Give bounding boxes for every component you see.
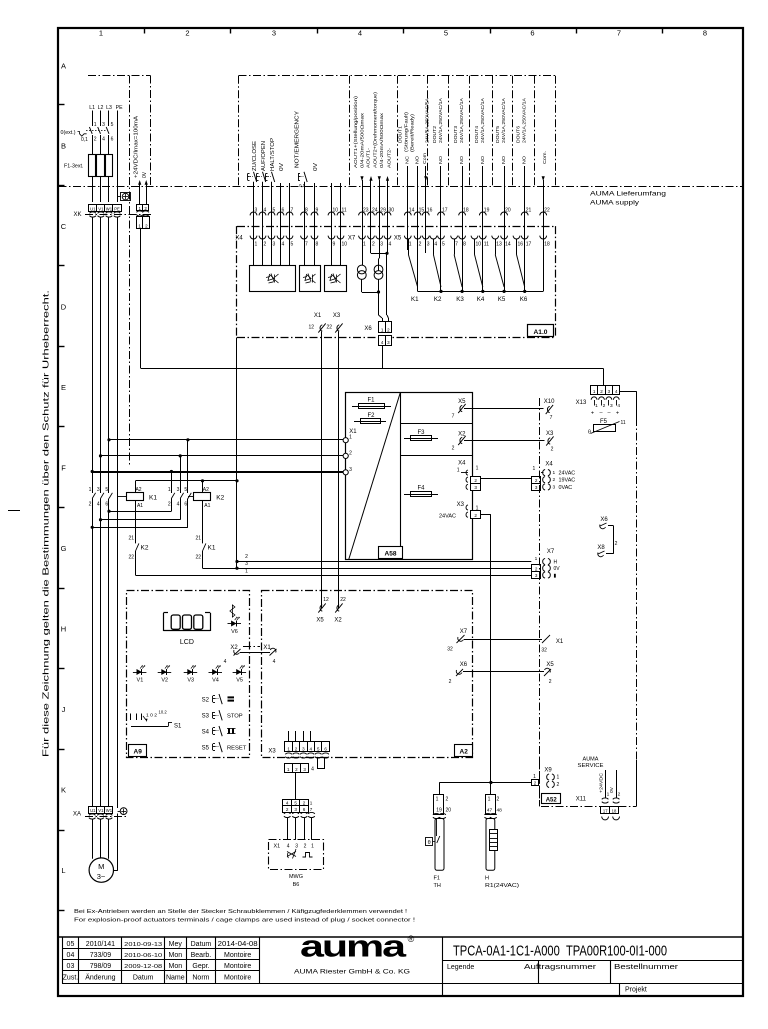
svg-text:A1: A1 xyxy=(204,503,210,509)
svg-text:V6: V6 xyxy=(231,629,238,635)
svg-text:3: 3 xyxy=(349,467,352,473)
svg-text:1: 1 xyxy=(607,792,610,798)
svg-text:▮: ▮ xyxy=(554,573,557,579)
svg-text:S4: S4 xyxy=(202,730,210,736)
svg-text:STOP: STOP xyxy=(227,714,243,720)
svg-text:24V/1A,250VAC/1A: 24V/1A,250VAC/1A xyxy=(522,97,528,143)
svg-text:K2: K2 xyxy=(434,296,442,303)
svg-text:4: 4 xyxy=(311,767,314,773)
svg-text:5: 5 xyxy=(184,487,187,493)
svg-text:H: H xyxy=(554,559,558,565)
svg-text:4: 4 xyxy=(434,241,437,247)
svg-text:X5: X5 xyxy=(394,235,402,241)
svg-text:RESET: RESET xyxy=(227,746,247,752)
svg-text:2: 2 xyxy=(372,241,375,247)
svg-text:3: 3 xyxy=(272,29,276,38)
svg-text:6: 6 xyxy=(303,807,306,812)
svg-text:4: 4 xyxy=(224,659,227,665)
svg-text:03: 03 xyxy=(67,963,75,970)
svg-text:X11: X11 xyxy=(576,797,587,803)
svg-text:18: 18 xyxy=(544,241,550,247)
svg-text:X13: X13 xyxy=(576,400,587,406)
svg-text:19: 19 xyxy=(436,808,442,814)
svg-text:U1: U1 xyxy=(90,206,96,211)
svg-text:PE: PE xyxy=(116,105,123,111)
svg-text:X1: X1 xyxy=(263,645,271,651)
svg-text:0/4-20mA/500Ωmax: 0/4-20mA/500Ωmax xyxy=(360,112,366,168)
svg-text:18: 18 xyxy=(612,809,617,814)
svg-text:2010-09-13: 2010-09-13 xyxy=(124,942,162,948)
svg-text:3: 3 xyxy=(102,122,105,128)
svg-text:+: + xyxy=(591,411,594,417)
svg-text:14: 14 xyxy=(505,241,511,247)
svg-text:+24VDC: +24VDC xyxy=(599,772,605,793)
svg-text:17: 17 xyxy=(603,809,608,814)
svg-text:0V: 0V xyxy=(313,162,319,171)
svg-text:(Störung/Fault): (Störung/Fault) xyxy=(404,112,410,152)
svg-text:AOUT2-: AOUT2- xyxy=(387,148,393,168)
svg-text:798/09: 798/09 xyxy=(90,963,112,970)
svg-text:X3: X3 xyxy=(268,749,276,755)
svg-text:5: 5 xyxy=(111,122,114,128)
svg-text:7: 7 xyxy=(455,241,458,247)
svg-text:13: 13 xyxy=(496,241,502,247)
svg-text:TPCA-0A1-1C1-A000 TPA00R100-0: TPCA-0A1-1C1-A000 TPA00R100-0I1-000 xyxy=(453,943,667,960)
svg-text:1: 1 xyxy=(255,241,258,247)
svg-text:04: 04 xyxy=(67,952,75,959)
svg-text:1: 1 xyxy=(533,466,536,472)
svg-text:Bearb.: Bearb. xyxy=(191,952,212,959)
svg-text:6: 6 xyxy=(105,502,108,508)
svg-text:X1: X1 xyxy=(274,844,281,850)
svg-text:AUMA: AUMA xyxy=(583,757,599,763)
svg-text:2010-06-10: 2010-06-10 xyxy=(124,953,162,959)
svg-text:4: 4 xyxy=(358,29,362,38)
svg-text:NO: NO xyxy=(415,156,421,164)
svg-text:3: 3 xyxy=(535,573,538,578)
svg-text:7: 7 xyxy=(617,29,621,38)
svg-text:1: 1 xyxy=(553,470,556,476)
svg-text:X3: X3 xyxy=(333,313,341,319)
svg-text:2: 2 xyxy=(168,502,171,508)
svg-text:7: 7 xyxy=(310,807,313,812)
svg-text:AOUT1-: AOUT1- xyxy=(366,148,372,168)
svg-text:NO: NO xyxy=(438,156,444,164)
svg-text:5: 5 xyxy=(105,487,108,493)
svg-text:2: 2 xyxy=(557,782,560,788)
svg-text:10.2: 10.2 xyxy=(159,710,168,715)
svg-text:3: 3 xyxy=(273,241,276,247)
svg-text:0/4-20mA/500Ωmax: 0/4-20mA/500Ωmax xyxy=(379,112,385,168)
svg-text:AUMA Riester GmbH & Co. KG: AUMA Riester GmbH & Co. KG xyxy=(294,969,410,976)
svg-text:19VAC: 19VAC xyxy=(559,478,576,484)
svg-text:X3: X3 xyxy=(457,502,465,508)
svg-text:1: 1 xyxy=(557,775,560,781)
svg-text:22: 22 xyxy=(195,555,201,561)
svg-text:3: 3 xyxy=(294,807,297,812)
svg-text:3: 3 xyxy=(295,844,298,850)
svg-text:24V/1A,250VAC/1A: 24V/1A,250VAC/1A xyxy=(501,97,507,143)
svg-text:17: 17 xyxy=(526,241,532,247)
svg-text:S1: S1 xyxy=(174,724,182,730)
svg-text:Mon: Mon xyxy=(168,952,182,959)
svg-text:K1: K1 xyxy=(411,296,419,303)
svg-text:J: J xyxy=(62,705,66,714)
svg-text:0V: 0V xyxy=(554,566,561,572)
svg-text:X4: X4 xyxy=(458,461,466,467)
svg-text:2: 2 xyxy=(264,241,267,247)
svg-text:V1: V1 xyxy=(98,808,104,813)
svg-text:2: 2 xyxy=(286,807,289,812)
svg-text:7: 7 xyxy=(452,414,455,420)
svg-text:12: 12 xyxy=(308,325,314,331)
svg-text:AUMA supply: AUMA supply xyxy=(590,200,640,207)
svg-text:5: 5 xyxy=(294,801,297,806)
svg-text:B: B xyxy=(61,142,66,151)
svg-text:4: 4 xyxy=(287,844,290,850)
svg-text:1: 1 xyxy=(488,797,491,803)
svg-text:6: 6 xyxy=(111,137,114,143)
svg-text:X1: X1 xyxy=(314,313,322,319)
svg-text:5: 5 xyxy=(442,241,445,247)
svg-text:2: 2 xyxy=(303,801,306,806)
svg-text:DOUT1: DOUT1 xyxy=(398,126,404,143)
svg-text:Bei Ex-Antrieben werden an Ste: Bei Ex-Antrieben werden an Stelle der St… xyxy=(74,909,407,915)
svg-text:X9: X9 xyxy=(544,768,552,774)
svg-text:L3: L3 xyxy=(106,105,112,111)
svg-text:XA: XA xyxy=(73,812,81,818)
svg-text:5: 5 xyxy=(444,29,448,38)
svg-text:DOUT6: DOUT6 xyxy=(516,126,522,143)
svg-text:X2: X2 xyxy=(230,645,238,651)
svg-text:X2: X2 xyxy=(334,618,342,624)
svg-text:1: 1 xyxy=(311,844,314,850)
svg-text:2: 2 xyxy=(185,29,189,38)
svg-text:3: 3 xyxy=(427,241,430,247)
svg-text:NOT/EMERGENCY: NOT/EMERGENCY xyxy=(295,110,301,168)
svg-text:2: 2 xyxy=(551,447,554,453)
svg-text:2: 2 xyxy=(553,477,556,483)
svg-text:16: 16 xyxy=(518,241,524,247)
svg-text:A: A xyxy=(61,62,66,71)
svg-text:X6: X6 xyxy=(600,517,608,523)
svg-text:21: 21 xyxy=(128,536,134,542)
svg-text:2: 2 xyxy=(535,478,538,483)
svg-text:Auftragsnummer: Auftragsnummer xyxy=(524,964,597,971)
svg-text:3: 3 xyxy=(610,403,613,409)
svg-text:X4: X4 xyxy=(235,235,243,241)
svg-text:24V/1A,250VAC/1A: 24V/1A,250VAC/1A xyxy=(438,97,444,143)
svg-text:(Bereit/Ready): (Bereit/Ready) xyxy=(410,114,416,152)
svg-text:K5: K5 xyxy=(498,296,506,303)
svg-text:X3: X3 xyxy=(546,431,554,437)
svg-text:AOUT2+(Drehmoment/torque): AOUT2+(Drehmoment/torque) xyxy=(373,92,379,168)
svg-text:C: C xyxy=(61,222,67,231)
svg-text:1: 1 xyxy=(595,403,598,409)
svg-text:24V/5A,250VAC/5A: 24V/5A,250VAC/5A xyxy=(425,97,431,143)
svg-text:V5: V5 xyxy=(236,678,243,684)
svg-text:F: F xyxy=(61,464,66,473)
svg-text:1: 1 xyxy=(457,467,460,473)
svg-text:H: H xyxy=(61,625,66,634)
svg-text:NO: NO xyxy=(501,156,507,164)
svg-text:1: 1 xyxy=(349,435,352,441)
svg-text:θ: θ xyxy=(588,430,591,436)
svg-text:32: 32 xyxy=(541,648,547,654)
svg-text:2: 2 xyxy=(452,446,455,452)
svg-text:F1: F1 xyxy=(434,876,440,882)
svg-text:2: 2 xyxy=(419,241,422,247)
svg-text:3: 3 xyxy=(553,484,556,490)
svg-text:K2: K2 xyxy=(141,545,149,552)
svg-text:1: 1 xyxy=(245,568,248,574)
svg-text:Bestellnummer: Bestellnummer xyxy=(614,964,679,971)
svg-text:MWG: MWG xyxy=(289,874,303,880)
svg-text:V4: V4 xyxy=(212,678,219,684)
svg-text:2: 2 xyxy=(618,792,621,798)
svg-text:2: 2 xyxy=(349,450,352,456)
svg-text:AUF/OPEN: AUF/OPEN xyxy=(261,141,267,171)
svg-text:D: D xyxy=(61,303,67,312)
svg-text:F1-3ext.: F1-3ext. xyxy=(64,164,83,170)
svg-text:6: 6 xyxy=(184,502,187,508)
svg-text:Montoire: Montoire xyxy=(224,963,251,970)
svg-text:22: 22 xyxy=(326,325,332,331)
svg-text:4: 4 xyxy=(617,403,620,409)
svg-text:X7: X7 xyxy=(547,549,555,555)
svg-text:A2: A2 xyxy=(203,487,209,493)
svg-text:A1: A1 xyxy=(137,503,143,509)
svg-text:NC: NC xyxy=(405,155,411,164)
svg-text:4: 4 xyxy=(282,241,285,247)
svg-text:47: 47 xyxy=(487,808,493,814)
svg-text:SERVICE: SERVICE xyxy=(578,763,604,769)
svg-text:1: 1 xyxy=(476,466,479,472)
svg-text:733/09: 733/09 xyxy=(90,952,112,959)
svg-text:4: 4 xyxy=(389,241,392,247)
svg-text:NO: NO xyxy=(522,156,528,164)
svg-text:3: 3 xyxy=(474,485,477,490)
svg-text:05: 05 xyxy=(67,941,75,948)
svg-text:DOUT3: DOUT3 xyxy=(453,126,459,143)
svg-text:24V/1A,250VAC/1A: 24V/1A,250VAC/1A xyxy=(459,97,465,143)
svg-text:TH: TH xyxy=(434,883,441,889)
svg-text:V1: V1 xyxy=(137,678,144,684)
svg-text:W1: W1 xyxy=(106,206,113,211)
svg-text:3: 3 xyxy=(245,561,248,567)
svg-text:M: M xyxy=(98,862,104,871)
svg-text:2: 2 xyxy=(603,403,606,409)
svg-text:0V: 0V xyxy=(142,171,148,178)
svg-text:HALT/STOP: HALT/STOP xyxy=(270,137,276,171)
svg-text:3: 3 xyxy=(535,485,538,490)
svg-text:48: 48 xyxy=(497,808,503,814)
svg-text:X1: X1 xyxy=(556,639,564,645)
svg-text:S3: S3 xyxy=(202,714,210,720)
svg-text:22: 22 xyxy=(128,555,134,561)
svg-text:S5: S5 xyxy=(202,746,210,752)
svg-text:11: 11 xyxy=(484,241,489,247)
svg-text:F4: F4 xyxy=(417,486,425,492)
svg-text:X8: X8 xyxy=(597,545,605,551)
svg-text:Gepr.: Gepr. xyxy=(192,963,209,970)
svg-text:ZU/CLOSE: ZU/CLOSE xyxy=(252,140,258,171)
svg-text:3: 3 xyxy=(97,487,100,493)
svg-text:2: 2 xyxy=(446,797,449,803)
svg-text:7: 7 xyxy=(550,415,553,421)
svg-text:Projekt: Projekt xyxy=(625,987,647,994)
svg-text:8: 8 xyxy=(463,241,466,247)
svg-text:Datum: Datum xyxy=(191,941,212,948)
svg-text:10: 10 xyxy=(342,241,348,247)
svg-text:7: 7 xyxy=(305,241,308,247)
svg-text:L1: L1 xyxy=(89,105,95,111)
svg-text:2: 2 xyxy=(89,502,92,508)
svg-text:9: 9 xyxy=(333,241,336,247)
svg-text:2: 2 xyxy=(449,679,452,685)
svg-text:L2: L2 xyxy=(98,105,104,111)
svg-text:NO: NO xyxy=(459,156,465,164)
svg-text:8: 8 xyxy=(316,241,319,247)
svg-text:0,1: 0,1 xyxy=(81,137,88,143)
svg-text:24V/1A,250VAC/1A: 24V/1A,250VAC/1A xyxy=(480,97,486,143)
svg-text:X10: X10 xyxy=(544,399,555,405)
svg-text:K4: K4 xyxy=(477,296,485,303)
svg-text:F1: F1 xyxy=(367,398,375,404)
svg-text:1: 1 xyxy=(89,487,92,493)
svg-text:2014-04-08: 2014-04-08 xyxy=(218,941,258,948)
svg-text:A9: A9 xyxy=(134,749,143,756)
svg-text:2: 2 xyxy=(497,797,500,803)
svg-text:DOUT5: DOUT5 xyxy=(495,126,501,143)
svg-text:θ: θ xyxy=(428,840,431,846)
svg-text:20: 20 xyxy=(446,808,452,814)
svg-text:2: 2 xyxy=(304,844,307,850)
svg-text:Mon: Mon xyxy=(168,963,182,970)
svg-text:AOUT1+(Stellung/position): AOUT1+(Stellung/position) xyxy=(353,96,359,168)
svg-text:1: 1 xyxy=(99,29,103,38)
svg-text:0V: 0V xyxy=(609,786,615,793)
svg-text:2: 2 xyxy=(615,541,618,547)
svg-text:®: ® xyxy=(408,934,415,944)
svg-text:3~: 3~ xyxy=(97,872,106,881)
svg-text:E: E xyxy=(61,383,66,392)
svg-text:2: 2 xyxy=(549,679,552,685)
svg-text:Norm: Norm xyxy=(192,975,209,982)
svg-text:2: 2 xyxy=(245,554,248,560)
svg-text:4: 4 xyxy=(286,801,289,806)
svg-text:10: 10 xyxy=(476,241,482,247)
svg-text:DOUT2: DOUT2 xyxy=(432,126,438,143)
svg-text:V1: V1 xyxy=(98,206,104,211)
svg-text:+24VDC/Imax=100mA: +24VDC/Imax=100mA xyxy=(133,115,139,178)
svg-text:8: 8 xyxy=(703,29,707,38)
svg-text:NO: NO xyxy=(480,156,486,164)
svg-text:LCD: LCD xyxy=(180,639,194,646)
svg-text:24VAC: 24VAC xyxy=(559,471,576,477)
svg-text:1 0 2: 1 0 2 xyxy=(146,713,158,718)
svg-text:Für diese Zeichnung gelten die: Für diese Zeichnung gelten die Bestimmun… xyxy=(42,290,51,757)
svg-text:11: 11 xyxy=(621,420,626,426)
svg-text:2010/141: 2010/141 xyxy=(86,941,115,948)
svg-text:32: 32 xyxy=(447,647,453,653)
svg-text:Legende: Legende xyxy=(447,964,474,971)
svg-text:1: 1 xyxy=(168,487,171,493)
svg-text:X7: X7 xyxy=(348,235,356,241)
svg-text:Montoire: Montoire xyxy=(224,975,251,982)
svg-text:PE: PE xyxy=(114,206,120,211)
svg-text:1: 1 xyxy=(436,797,439,803)
svg-text:XK: XK xyxy=(73,212,81,218)
svg-text:Zust.: Zust. xyxy=(63,975,79,982)
svg-text:X6: X6 xyxy=(364,326,372,332)
svg-text:0V: 0V xyxy=(279,162,285,171)
svg-text:0(ext.): 0(ext.) xyxy=(61,130,76,136)
svg-text:1: 1 xyxy=(310,801,313,806)
svg-text:24VAC: 24VAC xyxy=(439,514,456,520)
svg-text:Name: Name xyxy=(166,975,185,982)
svg-text:4: 4 xyxy=(102,137,105,143)
svg-text:Datum: Datum xyxy=(133,975,154,982)
svg-text:1: 1 xyxy=(363,241,366,247)
svg-text:+: + xyxy=(616,411,619,417)
svg-text:U1: U1 xyxy=(90,808,96,813)
svg-text:6: 6 xyxy=(530,29,534,38)
svg-text:AUMA Lieferumfang: AUMA Lieferumfang xyxy=(590,191,666,198)
svg-text:A58: A58 xyxy=(385,550,397,557)
svg-text:Mey: Mey xyxy=(169,941,183,948)
svg-text:22: 22 xyxy=(340,597,346,603)
svg-text:A52: A52 xyxy=(546,798,558,804)
svg-text:B6: B6 xyxy=(293,882,300,888)
svg-text:K: K xyxy=(61,786,66,795)
svg-text:auma: auma xyxy=(300,929,407,964)
svg-text:G: G xyxy=(61,544,67,553)
svg-text:X5: X5 xyxy=(316,618,324,624)
svg-text:L: L xyxy=(61,866,65,875)
svg-text:2: 2 xyxy=(474,478,477,483)
svg-text:W1: W1 xyxy=(106,808,113,813)
svg-text:R1(24VAC): R1(24VAC) xyxy=(485,883,519,889)
svg-text:21: 21 xyxy=(195,536,201,542)
svg-text:X5: X5 xyxy=(546,662,554,668)
svg-text:K6: K6 xyxy=(520,296,528,303)
svg-text:2009-12-08: 2009-12-08 xyxy=(124,964,162,970)
svg-text:For explosion-proof actuators: For explosion-proof actuators terminals … xyxy=(74,918,416,924)
svg-text:2: 2 xyxy=(474,513,477,518)
svg-text:A1.0: A1.0 xyxy=(534,329,548,336)
svg-text:0VAC: 0VAC xyxy=(559,485,573,491)
svg-text:4: 4 xyxy=(97,502,100,508)
svg-text:Montoire: Montoire xyxy=(224,952,251,959)
svg-text:4: 4 xyxy=(177,502,180,508)
svg-text:K1: K1 xyxy=(208,545,216,552)
svg-text:K2: K2 xyxy=(216,495,224,502)
svg-text:S2: S2 xyxy=(202,698,210,704)
svg-text:2: 2 xyxy=(535,566,538,571)
svg-text:X4: X4 xyxy=(545,462,553,468)
svg-text:3: 3 xyxy=(177,487,180,493)
svg-text:3: 3 xyxy=(380,241,383,247)
svg-text:5: 5 xyxy=(291,241,294,247)
svg-text:Änderung: Änderung xyxy=(85,974,115,982)
svg-text:1: 1 xyxy=(409,241,412,247)
svg-text:Com: Com xyxy=(422,153,428,164)
svg-text:H: H xyxy=(485,876,489,882)
svg-text:K3: K3 xyxy=(456,296,464,303)
svg-text:1: 1 xyxy=(94,122,97,128)
svg-text:V3: V3 xyxy=(187,678,194,684)
